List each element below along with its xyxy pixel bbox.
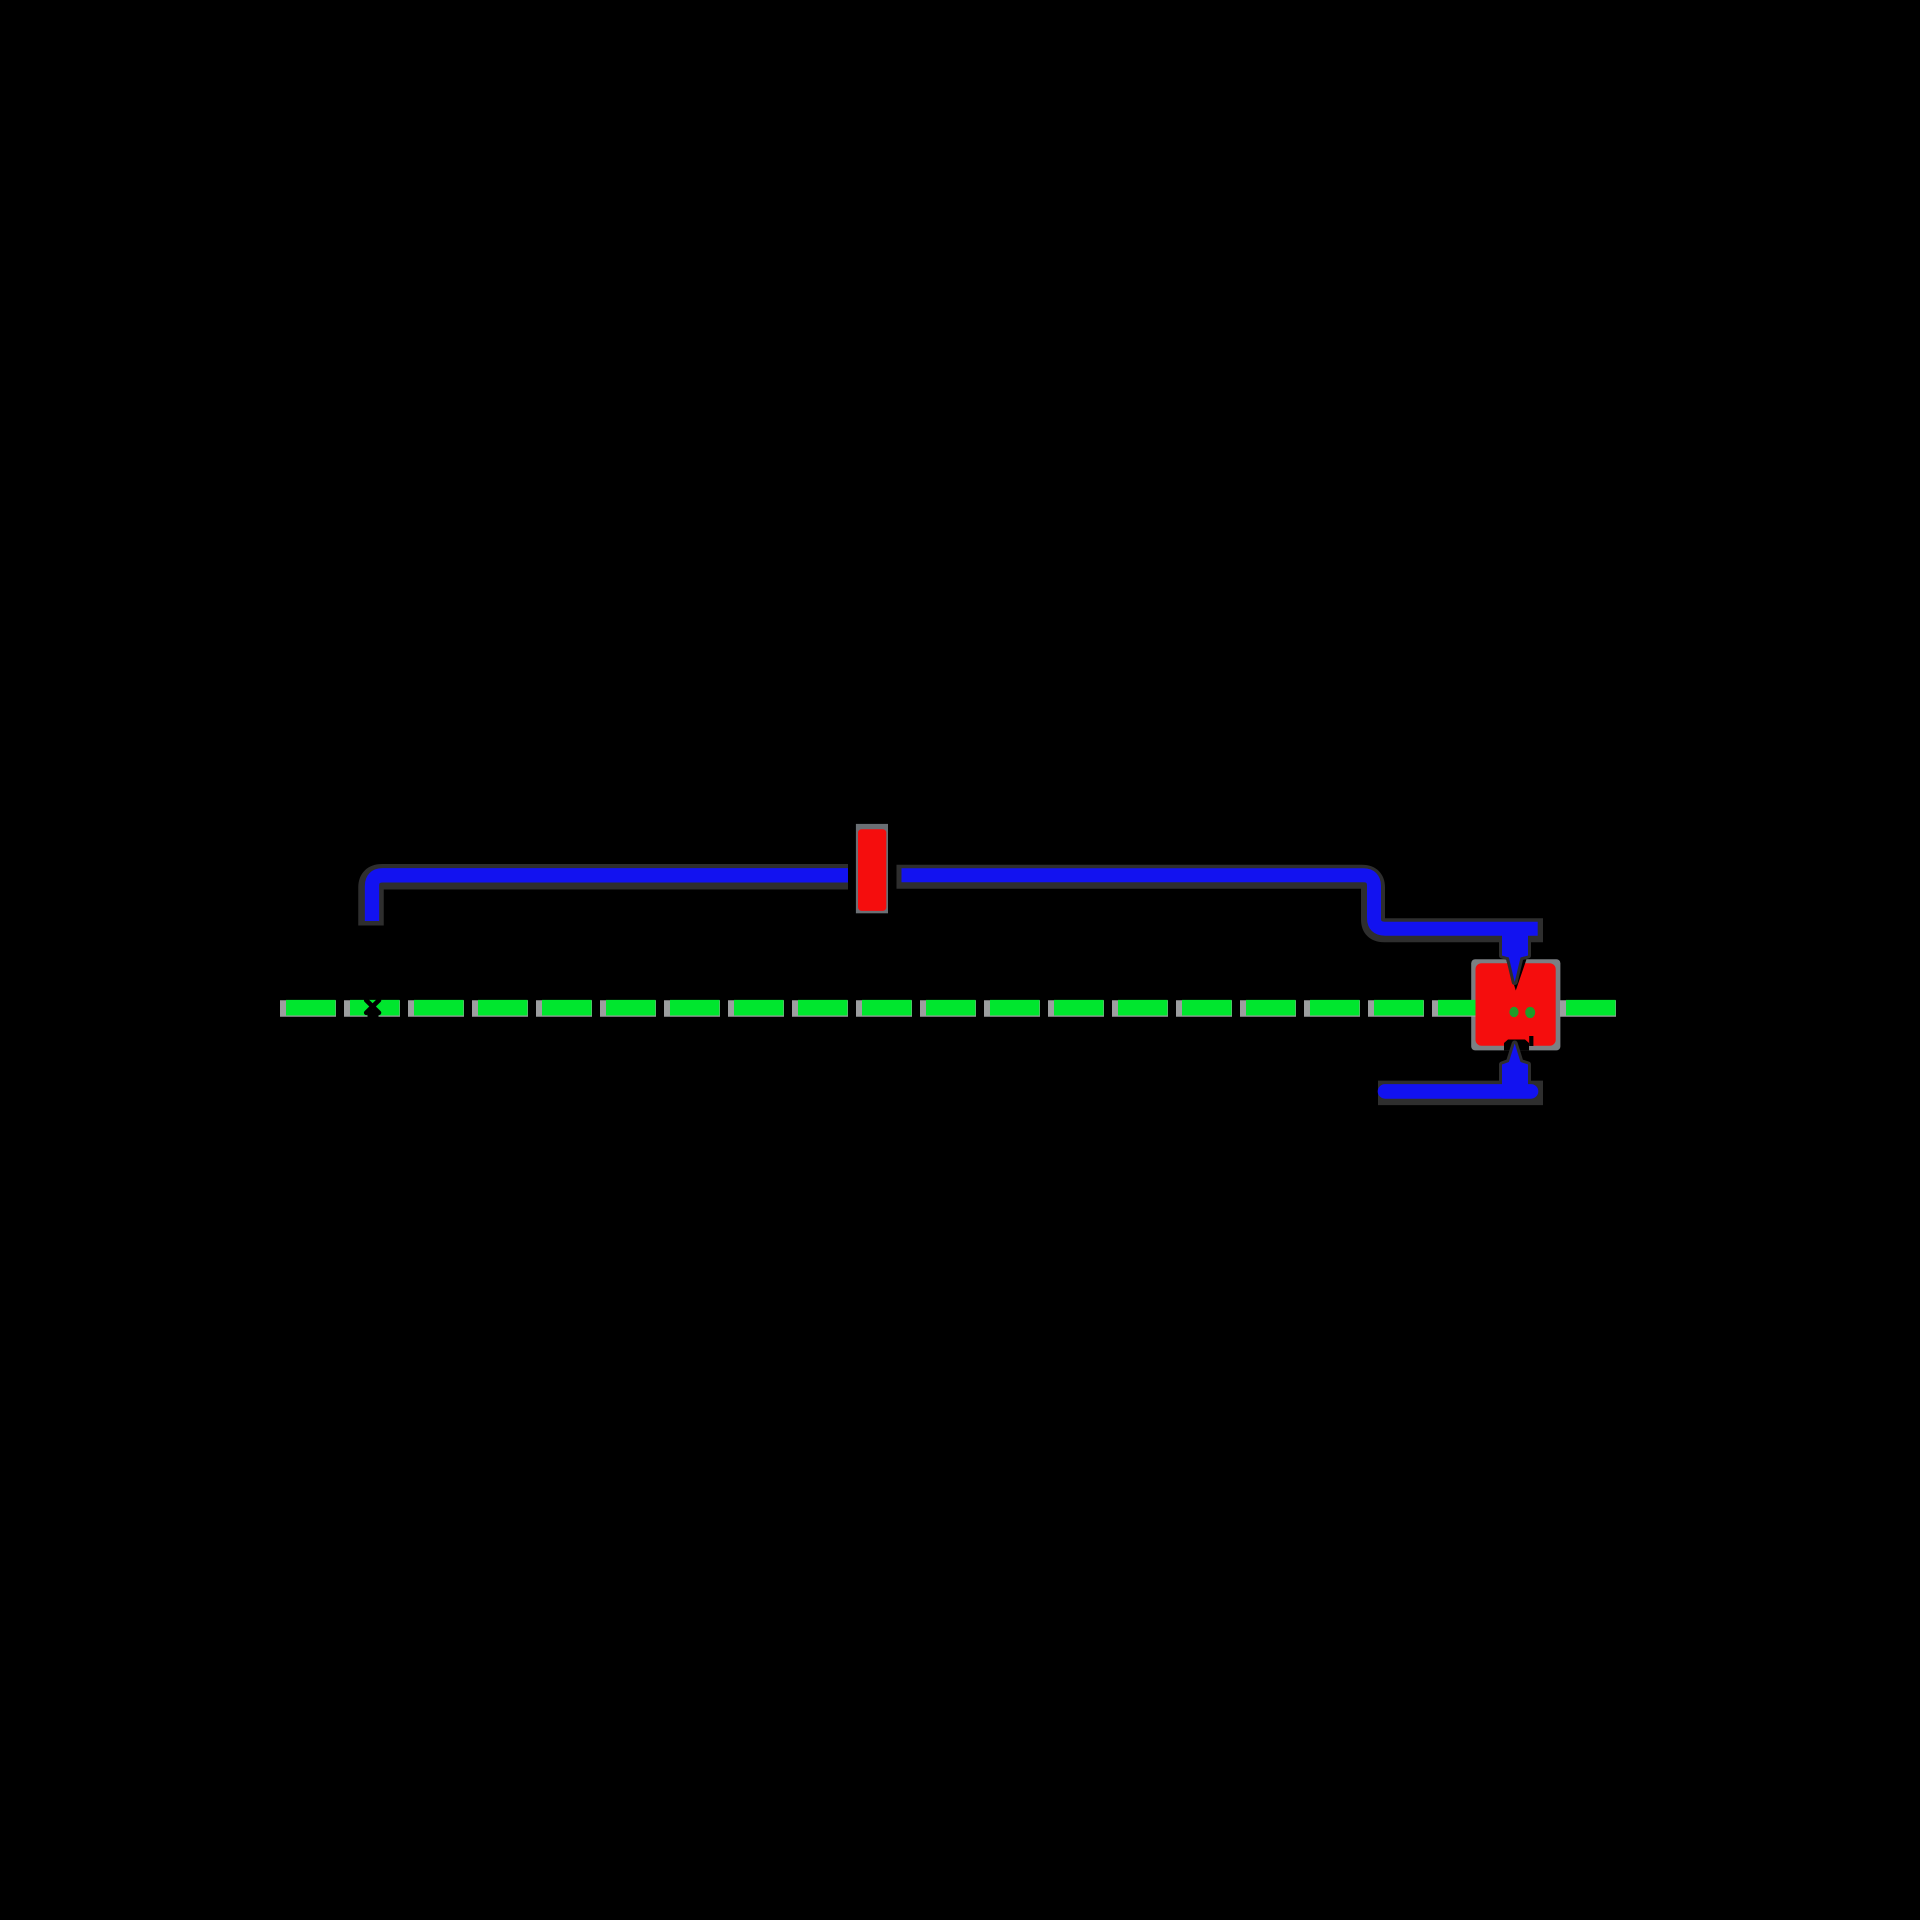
wire: outline of lower-right return wire	[1378, 1081, 1543, 1106]
wire: lower-right return wire (blue)	[1385, 1084, 1531, 1099]
node A: black x marker on ground line	[366, 1000, 379, 1013]
node: ground line (green dashed)	[286, 1000, 1616, 1016]
motor M1: right counter showing green line	[1525, 1007, 1535, 1018]
motor M1: red letter M body	[1476, 963, 1556, 1045]
node A: black dot marker	[367, 1010, 378, 1021]
node: ground line (green dashed) outline	[280, 1000, 1617, 1017]
motor M1: top V notch of letter M	[1506, 959, 1527, 990]
wire: top wire right segment, right vertical, upper-right feed (blue)	[902, 875, 1538, 928]
motor M1: gray outline square	[1471, 959, 1560, 1050]
wire: outline of left stub + top wire (left part)	[371, 877, 848, 926]
arrow: feed arrowhead into motor top	[1502, 930, 1528, 982]
motor M1: bottom notch of letter M	[1504, 1040, 1529, 1051]
motor M1: left counter showing green line	[1509, 1007, 1518, 1017]
motor M1: bottom right slot of letter M	[1529, 1036, 1533, 1046]
battery B1: gray border	[856, 824, 888, 913]
wire: left stub and top wire left segment (blue)	[372, 875, 848, 921]
arrow: return arrowhead from motor bottom	[1502, 1044, 1528, 1097]
battery B1: red body	[858, 829, 886, 911]
wire: outline of top wire (right part) + right drop + upper-right feed	[897, 877, 1544, 930]
